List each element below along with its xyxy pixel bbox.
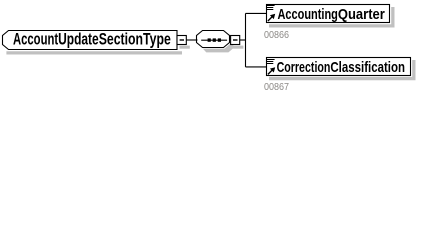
sequence compositor: dot 3 xyxy=(218,38,221,41)
expand box of sequence xyxy=(231,36,240,45)
svg-text:Update: Update xyxy=(58,31,99,49)
complexType AccountUpdateSectionType: box xyxy=(3,31,178,50)
sequence compositor: dot 1 xyxy=(208,38,211,41)
minus sign in expand box xyxy=(180,39,184,41)
svg-text:Quarter: Quarter xyxy=(338,6,385,23)
element CorrectionClassification: box xyxy=(267,58,411,76)
svg-text:00866: 00866 xyxy=(264,30,289,41)
wire: vertical trunk xyxy=(245,13,247,67)
element AccountingQuarter icon: reference arrow xyxy=(268,14,275,21)
svg-text:Accounting: Accounting xyxy=(278,6,338,23)
element CorrectionClassification: drop shadow band xyxy=(269,60,416,80)
sequence compositor: octagon xyxy=(197,31,230,48)
wire: stem from complexType expand box to sequence xyxy=(186,39,197,41)
complexType AccountUpdateSectionType: label xyxy=(13,31,171,49)
element CorrectionClassification icon: text line 1 xyxy=(267,59,275,61)
element AccountingQuarter icon: text line 1 xyxy=(267,5,275,7)
element AccountingQuarter icon: text line 2 xyxy=(267,7,273,9)
element CorrectionClassification icon: reference arrow xyxy=(268,67,275,74)
complexType AccountUpdateSectionType: drop shadow band xyxy=(6,51,182,54)
element CorrectionClassification: label xyxy=(277,59,405,76)
expand box of complexType xyxy=(177,36,186,45)
element AccountingQuarter icon: text line 3 xyxy=(267,9,273,11)
sequence compositor: inner line xyxy=(201,39,227,41)
wire: stem from sequence expand box to vertical trunk xyxy=(240,39,246,41)
element AccountingQuarter: box xyxy=(267,5,390,23)
sequence compositor: drop shadow band xyxy=(203,43,235,52)
wire: branch to CorrectionClassification xyxy=(246,66,268,68)
expand box of complexType: drop shadow band xyxy=(180,46,190,49)
wire: branch to AccountingQuarter xyxy=(246,12,268,14)
sequence compositor: dot 2 xyxy=(213,38,216,41)
element CorrectionClassification icon: text line 3 xyxy=(267,63,273,65)
svg-text:SectionType: SectionType xyxy=(99,31,171,49)
expand box of sequence: drop shadow band xyxy=(233,46,243,49)
svg-text:Classification: Classification xyxy=(330,59,405,76)
svg-text:00867: 00867 xyxy=(264,82,289,93)
element AccountingQuarter: label xyxy=(278,6,385,23)
minus sign in sequence expand box xyxy=(233,39,238,41)
element CorrectionClassification icon: text line 2 xyxy=(267,61,273,63)
svg-text:Account: Account xyxy=(13,31,58,49)
svg-text:Correction: Correction xyxy=(277,59,331,76)
element AccountingQuarter: drop shadow band xyxy=(269,7,395,28)
